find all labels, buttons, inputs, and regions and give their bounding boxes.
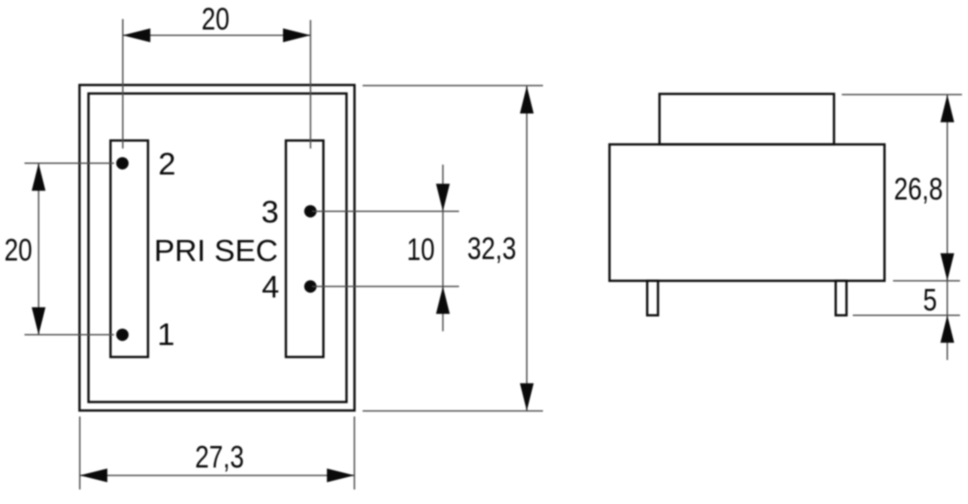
dim 20 left: top arrowhead bbox=[32, 163, 46, 191]
dim 10: dimension line bbox=[442, 165, 444, 332]
svg-text:26,8: 26,8 bbox=[894, 172, 943, 207]
dim 26,8: extension line top bbox=[842, 94, 962, 96]
svg-text:5: 5 bbox=[923, 283, 937, 318]
dim 20 top: left arrowhead bbox=[123, 28, 151, 42]
dim 10: extension line upper (from pin 3) bbox=[312, 210, 459, 212]
bobbin cap on top bbox=[660, 94, 835, 144]
dim 26,8: bottom arrowhead (points down) bbox=[940, 253, 954, 280]
svg-text:32,3: 32,3 bbox=[467, 231, 516, 266]
dim 5: arrowhead below (points up) bbox=[940, 315, 954, 343]
dim 20 top: extension line right bbox=[310, 20, 312, 149]
svg-text:1: 1 bbox=[157, 316, 175, 352]
svg-text:PRI SEC: PRI SEC bbox=[154, 233, 278, 268]
dim 10: extension line lower (from pin 4) bbox=[312, 285, 459, 287]
dim 5: extension line at pin bottom bbox=[853, 314, 960, 316]
dim 20 left: extension line lower (to pin 1) bbox=[25, 334, 115, 336]
svg-text:4: 4 bbox=[262, 269, 280, 305]
svg-text:20: 20 bbox=[4, 233, 32, 268]
right solder pin bbox=[836, 281, 847, 316]
pin 1 pad bbox=[116, 329, 128, 341]
transformer body outline (inner) bbox=[89, 94, 347, 403]
svg-text:27,3: 27,3 bbox=[195, 440, 244, 475]
dim 27,3: left arrowhead bbox=[80, 469, 108, 483]
dim 27,3: dimension line bbox=[80, 474, 355, 476]
dim 27,3: extension line left bbox=[79, 417, 81, 490]
dim 26,8 / 5: dimension line bbox=[946, 95, 948, 360]
dim 20 left: extension line upper (to pin 2) bbox=[25, 162, 115, 164]
dim 32,3: extension line top bbox=[363, 85, 543, 87]
pin 3 pad bbox=[304, 205, 316, 217]
dim 10: lower arrowhead (points up) bbox=[436, 286, 450, 314]
pin 4 pad bbox=[304, 280, 316, 292]
dim 10: upper arrowhead (points down) bbox=[436, 184, 450, 212]
dim 32,3: dimension line bbox=[526, 86, 528, 411]
svg-text:20: 20 bbox=[201, 2, 229, 37]
dim 32,3: top arrowhead (points up) bbox=[520, 86, 534, 114]
transformer body (front) bbox=[610, 144, 885, 280]
left solder pin bbox=[647, 281, 658, 316]
dim 20 left: bottom arrowhead bbox=[32, 307, 46, 335]
dim 5: extension line at body bottom bbox=[893, 280, 960, 282]
dim 20 top: right arrowhead bbox=[283, 28, 311, 42]
dimension lines bbox=[25, 19, 544, 490]
transformer body outline (outer) bbox=[80, 85, 355, 411]
dim 27,3: extension line right bbox=[353, 417, 355, 490]
svg-text:10: 10 bbox=[407, 232, 435, 267]
dim 20 top: dimension line bbox=[123, 34, 311, 36]
dim 20 left: dimension line bbox=[38, 163, 40, 335]
secondary pin slot bbox=[286, 141, 324, 358]
svg-text:2: 2 bbox=[158, 146, 176, 182]
primary pin slot bbox=[111, 141, 149, 358]
svg-text:3: 3 bbox=[261, 193, 279, 229]
dim 26,8: top arrowhead (points up) bbox=[940, 95, 954, 123]
dim 20 top: extension line left bbox=[122, 19, 124, 149]
dim 32,3: extension line bottom bbox=[363, 410, 543, 412]
dim 32,3: bottom arrowhead (points down) bbox=[520, 383, 534, 411]
dim 27,3: right arrowhead bbox=[327, 469, 355, 483]
pin 2 pad bbox=[116, 157, 128, 169]
